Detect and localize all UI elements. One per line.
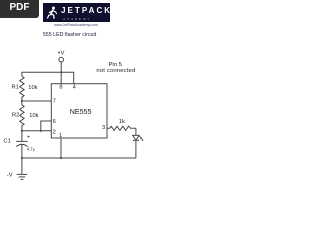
wire pin 6 jog (41, 121, 52, 131)
svg-text:2: 2 (53, 130, 56, 136)
junction node dot R2 C1 pin2 (21, 130, 23, 132)
wire top bracket R1 to pin 4 (22, 72, 74, 83)
wire +V to pin 8 (60, 62, 62, 84)
svg-text:1: 1 (59, 133, 62, 139)
running man icon (47, 6, 60, 22)
wire pin 7 (22, 100, 51, 102)
IC U1 NE555 box (51, 84, 107, 138)
capacitor C1 (21, 131, 23, 141)
svg-text:C1: C1 (4, 138, 11, 144)
svg-text:10k: 10k (28, 85, 37, 91)
junction node dot pin6 pin2 (40, 130, 42, 132)
LED arrowheads (140, 138, 142, 140)
wire pin 3 (107, 127, 110, 129)
svg-text:7: 7 (53, 98, 56, 104)
PDF badge (0, 0, 39, 18)
junction node dot +V bracket (60, 71, 62, 73)
ground rail wire (22, 157, 136, 159)
svg-text:+V: +V (57, 50, 64, 56)
junction node dot ground (21, 157, 23, 159)
svg-text:6: 6 (53, 119, 56, 125)
wire pin 1 (60, 138, 62, 158)
svg-text:8: 8 (59, 84, 62, 90)
LED D1 (135, 128, 137, 135)
LED emission arrows (139, 136, 143, 141)
svg-text:10k: 10k (29, 113, 38, 119)
ACADEMY subtext (43, 17, 111, 21)
resistor R1 (20, 76, 24, 101)
+V supply terminal (59, 57, 64, 62)
JETPACK logo bar (43, 3, 111, 22)
junction node dot R1 pin7 (21, 100, 23, 102)
svg-text:4.7µ: 4.7µ (27, 146, 35, 151)
junction node dot pin1 rail (60, 157, 62, 159)
svg-text:4: 4 (73, 84, 76, 90)
website url (0, 23, 152, 27)
ground symbol (21, 158, 23, 174)
circuit title (0, 32, 139, 38)
svg-text:R1: R1 (12, 85, 19, 91)
JETPACK wordmark (61, 6, 112, 15)
svg-text:+: + (27, 134, 31, 140)
wire pin 2 (22, 130, 51, 132)
resistor 1k (110, 126, 136, 130)
resistor R2 (20, 101, 24, 131)
svg-text:3: 3 (102, 125, 105, 131)
svg-text:1k: 1k (119, 119, 125, 125)
svg-text:R2: R2 (12, 113, 19, 119)
svg-text:NE555: NE555 (70, 108, 92, 116)
svg-text:not connected: not connected (96, 68, 135, 74)
svg-text:-V: -V (7, 173, 13, 179)
